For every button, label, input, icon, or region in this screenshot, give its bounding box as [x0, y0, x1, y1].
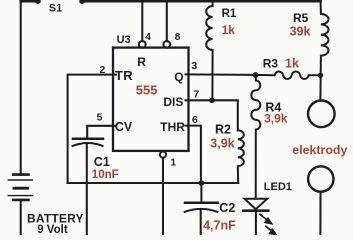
- LED1 triangle: [244, 199, 267, 210]
- electrode terminal 1: [308, 101, 335, 128]
- resistor R1: [206, 1, 212, 100]
- svg-text:10nF: 10nF: [92, 169, 119, 181]
- resistor R5: [320, 1, 328, 100]
- wire C2 to ground: [200, 210, 202, 236]
- wire C2 top lead: [200, 183, 202, 201]
- svg-text:1k: 1k: [285, 57, 299, 71]
- wire battery positive (left vertical): [20, 1, 22, 173]
- svg-text:1: 1: [171, 158, 177, 169]
- svg-text:S1: S1: [49, 2, 62, 14]
- wire top rail left segment: [21, 0, 36, 3]
- wire to pin 4: [141, 1, 143, 41]
- svg-text:C2: C2: [219, 201, 235, 215]
- wire pin 7 DIS: [186, 100, 238, 130]
- electrode terminal 2: [308, 166, 333, 191]
- LED1 light arrow 2: [266, 226, 277, 235]
- svg-text:555: 555: [136, 83, 158, 98]
- wire pin 6 THR: [186, 126, 201, 183]
- svg-text:Q: Q: [174, 70, 183, 84]
- wire battery negative (down): [20, 200, 22, 235]
- pin 8 terminal circle: [163, 41, 170, 48]
- wire C1 to ground: [86, 143, 88, 235]
- op-amp: IC U3 555 timer box: [113, 48, 189, 151]
- svg-text:1k: 1k: [222, 23, 236, 37]
- svg-text:LED1: LED1: [264, 181, 292, 193]
- svg-text:39k: 39k: [290, 25, 311, 39]
- pin 1 terminal circle: [160, 152, 166, 158]
- svg-text:7: 7: [193, 89, 199, 101]
- LED1 cathode bar: [243, 209, 268, 212]
- capacitor C2 top plate: [185, 201, 218, 204]
- capacitor C2 bottom plate: [185, 209, 218, 212]
- switch S1 contact dot right: [79, 0, 84, 4]
- node junction Q/R3/R4: [253, 72, 259, 78]
- node junction THR/C2/R2: [199, 180, 205, 186]
- wire pin 5 CV: [87, 126, 116, 138]
- svg-text:4,7nF: 4,7nF: [203, 218, 236, 232]
- capacitor C1 top plate: [73, 138, 103, 141]
- svg-text:5: 5: [97, 112, 103, 124]
- wire pins 2-6 bottom rail: [68, 182, 239, 184]
- svg-text:R1: R1: [222, 8, 237, 20]
- pin 4 terminal circle: [139, 41, 146, 48]
- svg-text:3: 3: [191, 60, 197, 72]
- switch S1 contact dot left: [35, 0, 40, 4]
- svg-text:3,9k: 3,9k: [264, 111, 288, 125]
- svg-text:R2: R2: [215, 123, 231, 137]
- svg-text:U3: U3: [117, 34, 131, 46]
- wire electrode 2 to ground: [319, 192, 321, 235]
- resistor R2: [238, 130, 244, 183]
- wire to pin 8: [166, 1, 168, 41]
- wire LED1 to ground: [255, 211, 257, 235]
- capacitor C1 bottom plate: [73, 143, 103, 146]
- svg-text:6: 6: [192, 114, 198, 126]
- svg-text:2: 2: [99, 64, 105, 76]
- svg-text:elektrody: elektrody: [292, 143, 347, 157]
- svg-text:CV: CV: [115, 120, 133, 134]
- node junction R1/DIS: [209, 98, 214, 103]
- svg-text:THR: THR: [160, 120, 185, 134]
- resistor R4: [251, 75, 260, 199]
- svg-text:DIS: DIS: [163, 95, 183, 109]
- svg-text:R5: R5: [293, 11, 309, 25]
- svg-text:C1: C1: [94, 155, 110, 169]
- svg-text:8: 8: [175, 32, 181, 43]
- svg-text:9 Volt: 9 Volt: [37, 224, 68, 235]
- resistor R3: [256, 71, 321, 78]
- svg-text:3,9k: 3,9k: [210, 136, 234, 150]
- wire pin 3 Q output: [186, 73, 256, 76]
- wire top rail right segment: [84, 0, 321, 3]
- svg-text:R3: R3: [263, 57, 279, 71]
- svg-text:4: 4: [145, 32, 151, 43]
- wire pin 2 TR: [68, 75, 116, 183]
- node junction R3/R5: [318, 73, 323, 78]
- svg-text:TR: TR: [115, 68, 133, 83]
- svg-text:R: R: [137, 55, 146, 69]
- battery BT1 plates: [8, 175, 32, 200]
- wire pin 1 to ground: [162, 158, 164, 235]
- LED1 light arrow 1: [260, 214, 272, 224]
